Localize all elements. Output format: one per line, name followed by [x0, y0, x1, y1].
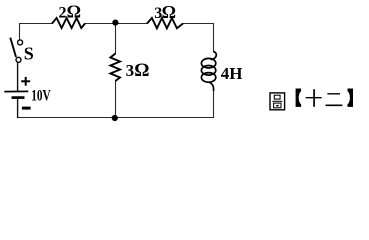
- svg-text:Ω: Ω: [162, 2, 176, 22]
- svg-text:Ω: Ω: [134, 60, 149, 81]
- svg-text:4H: 4H: [221, 64, 243, 83]
- svg-text:Ω: Ω: [67, 2, 81, 22]
- svg-text:10V: 10V: [31, 88, 51, 105]
- svg-text:3: 3: [126, 61, 135, 80]
- svg-text:2: 2: [59, 5, 67, 22]
- svg-text:S: S: [24, 43, 34, 63]
